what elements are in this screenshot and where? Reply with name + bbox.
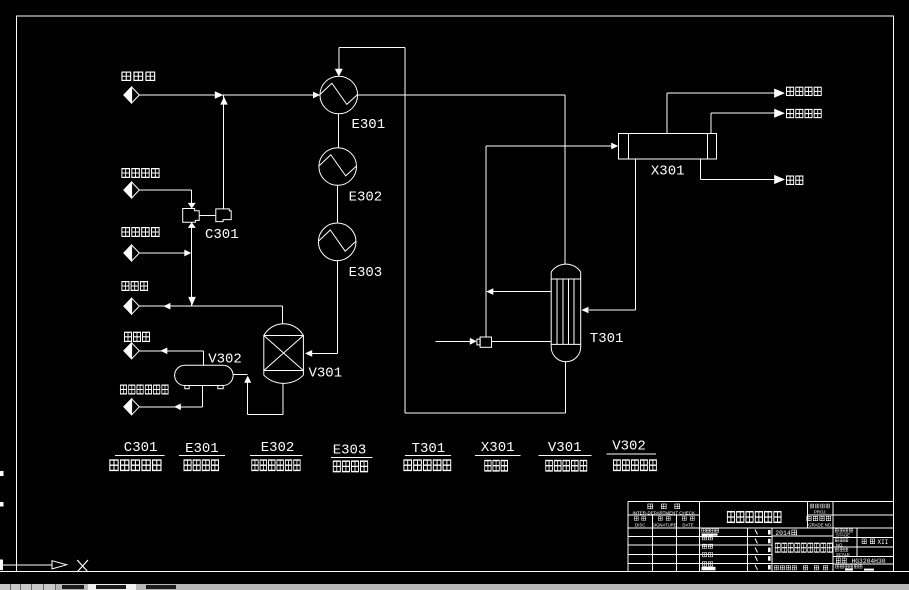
svg-text:SCALE: SCALE — [836, 552, 850, 557]
svg-text:E303: E303 — [333, 442, 367, 458]
svg-text:STAGE: STAGE — [836, 533, 850, 538]
svg-text:GRADE NO.: GRADE NO. — [808, 522, 832, 527]
svg-text:C301: C301 — [124, 440, 158, 456]
svg-text:E303: E303 — [349, 265, 383, 281]
svg-text:INTER-DEPARTMENT CHECK: INTER-DEPARTMENT CHECK — [633, 510, 696, 515]
svg-text:2014: 2014 — [775, 530, 791, 537]
svg-text:E302: E302 — [349, 190, 383, 206]
svg-text:X301: X301 — [651, 163, 685, 179]
svg-text:PROJ.: PROJ. — [814, 509, 827, 514]
svg-text:XII: XII — [878, 539, 889, 546]
svg-text:C301: C301 — [205, 227, 239, 243]
svg-text:V302: V302 — [208, 352, 242, 368]
svg-text:V302: V302 — [612, 438, 646, 454]
svg-text:X301: X301 — [481, 440, 515, 456]
svg-text:DATE: DATE — [682, 523, 693, 528]
svg-text:HG3204H30: HG3204H30 — [852, 558, 886, 565]
svg-text:V301: V301 — [309, 366, 343, 382]
svg-text:SIGNATURE: SIGNATURE — [652, 523, 677, 528]
svg-text:DISC: DISC — [635, 523, 645, 528]
svg-text:NO.: NO. — [836, 542, 843, 547]
svg-text:T301: T301 — [590, 331, 624, 347]
svg-text:E301: E301 — [185, 441, 219, 457]
svg-text:T301: T301 — [412, 441, 446, 457]
svg-text:V301: V301 — [548, 440, 582, 456]
svg-text:E302: E302 — [261, 440, 295, 456]
svg-text:E301: E301 — [352, 117, 386, 133]
